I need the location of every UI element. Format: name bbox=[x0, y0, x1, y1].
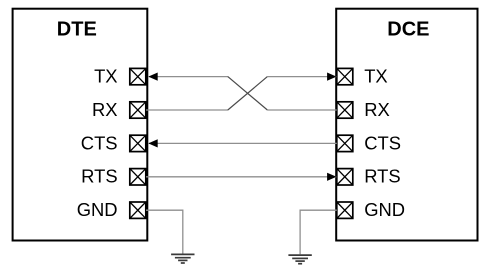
pin DTE.TX bbox=[130, 68, 146, 84]
wire DTE.GND to left ground bbox=[146, 210, 183, 253]
svg-text:DTE: DTE bbox=[57, 19, 97, 41]
pin DCE.CTS bbox=[337, 135, 353, 151]
arrowhead into DTE.CTS bbox=[148, 139, 157, 147]
pin DCE.RTS bbox=[337, 169, 353, 185]
wire DCE.RX to DTE.TX, crossover diagonal bbox=[228, 77, 268, 110]
pin DTE.RX bbox=[130, 102, 146, 118]
wire DTE.RX to DCE.TX, horizontal from DTE.RX bbox=[146, 109, 228, 111]
ground symbol (right) bbox=[288, 255, 311, 264]
pin DCE.GND bbox=[337, 202, 353, 218]
svg-text:CTS: CTS bbox=[81, 132, 118, 153]
pin DTE.CTS bbox=[130, 135, 146, 151]
pin DTE.GND bbox=[130, 202, 146, 218]
svg-text:CTS: CTS bbox=[364, 132, 401, 153]
wire DCE.RX to DTE.TX, horizontal into DTE.TX bbox=[149, 76, 228, 78]
svg-text:DCE: DCE bbox=[387, 19, 429, 41]
arrowhead into DCE.TX bbox=[327, 73, 336, 81]
svg-text:TX: TX bbox=[364, 66, 388, 87]
pin DCE.RX bbox=[337, 102, 353, 118]
svg-text:RX: RX bbox=[92, 99, 118, 120]
svg-text:RX: RX bbox=[364, 99, 390, 120]
wire DTE.RX to DCE.TX, horizontal into DCE.TX bbox=[267, 76, 336, 78]
device box DTE bbox=[13, 9, 148, 241]
wire DTE.RTS to DCE.RTS bbox=[146, 176, 336, 178]
arrowhead into DCE.RTS bbox=[327, 173, 336, 181]
wire DCE.GND to right ground bbox=[300, 210, 337, 254]
svg-text:RTS: RTS bbox=[364, 166, 400, 187]
ground symbol (left) bbox=[171, 254, 194, 263]
pin DTE.RTS bbox=[130, 169, 146, 185]
wire DCE.RX to DTE.TX, horizontal from DCE.RX bbox=[267, 109, 337, 111]
svg-text:GND: GND bbox=[364, 199, 405, 220]
device box DCE bbox=[336, 9, 477, 241]
svg-text:GND: GND bbox=[77, 199, 118, 220]
arrowhead into DTE.TX bbox=[148, 73, 157, 81]
wire DTE.RX to DCE.TX, crossover diagonal bbox=[228, 77, 268, 110]
svg-text:RTS: RTS bbox=[81, 166, 117, 187]
svg-text:TX: TX bbox=[94, 66, 118, 87]
pin DCE.TX bbox=[337, 68, 353, 84]
wire DCE.CTS to DTE.CTS bbox=[149, 142, 337, 144]
